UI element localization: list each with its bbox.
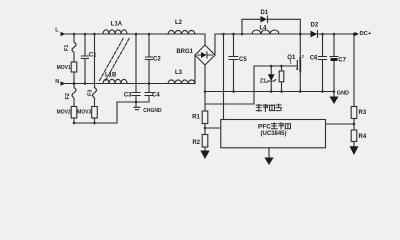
node Z1 top junction — [270, 65, 273, 68]
node N-MOV1 junction — [73, 82, 76, 85]
svg-text:D2: D2 — [311, 23, 319, 29]
wire R3R4 to box — [326, 119, 355, 131]
ground GND — [330, 91, 350, 104]
wire gate drive vertical — [253, 66, 255, 104]
capacitor C1 — [82, 34, 98, 84]
diode D1 bypass loop — [242, 10, 300, 34]
capacitor C5 — [229, 34, 247, 92]
node L-C3 junction — [135, 33, 138, 36]
node bridge minus junction — [204, 90, 207, 93]
wire L rail — [63, 33, 205, 35]
svg-text:C3: C3 — [124, 93, 132, 99]
node Q1 source junction — [299, 90, 302, 93]
svg-text:R2: R2 — [192, 140, 200, 146]
PFC controller box U1 — [221, 120, 326, 148]
wire gate drive — [254, 65, 297, 67]
varistor MOV3 — [77, 107, 97, 124]
wire chassis ground rail — [117, 101, 149, 103]
resistor R3 — [351, 107, 367, 119]
svg-text:R1: R1 — [192, 114, 200, 120]
inductor L1A — [103, 21, 127, 34]
ground arrow below R4 — [350, 142, 359, 156]
capacitor C2 — [146, 34, 162, 84]
wire bridge bottom lead — [204, 65, 206, 111]
terminal L — [55, 28, 66, 37]
svg-text:(UC3845): (UC3845) — [260, 131, 286, 137]
zener Z1 — [260, 66, 276, 92]
node MOV2 bottom junction — [73, 122, 76, 125]
node N-C1 junction — [84, 82, 87, 85]
inductor L3 — [168, 70, 195, 84]
node N-C2 junction — [148, 82, 151, 85]
svg-text:C2: C2 — [153, 56, 161, 62]
svg-text:L4: L4 — [260, 25, 268, 31]
terminal N — [55, 79, 66, 86]
svg-text:R3: R3 — [359, 110, 367, 116]
wire N rail — [63, 83, 195, 85]
node R1 R2 junction — [204, 127, 207, 130]
resistor R4 — [351, 130, 367, 142]
svg-text:PFC: PFC — [258, 124, 271, 131]
wire R1 feed horizontal — [205, 103, 254, 105]
svg-text:C1: C1 — [89, 53, 97, 59]
node C6 bottom junction — [321, 90, 324, 93]
node Rgate bottom junction — [280, 90, 283, 93]
svg-text:N: N — [55, 79, 59, 85]
wire DC bus — [215, 33, 354, 35]
wire MOV bottom rail — [74, 102, 117, 123]
svg-text:MOV3: MOV3 — [77, 110, 91, 116]
choke core lines — [100, 37, 131, 81]
svg-text:C7: C7 — [338, 57, 346, 63]
svg-text:F1: F1 — [64, 45, 70, 51]
fuse F3 — [88, 34, 97, 107]
node D1 left junction — [241, 33, 244, 36]
varistor MOV1 — [57, 62, 77, 84]
node DC+ branch junction — [353, 33, 356, 36]
svg-text:L1A: L1A — [111, 21, 123, 27]
capacitor C7 electrolytic — [330, 34, 347, 97]
node L-C1 junction — [84, 33, 87, 36]
wire bridge top lead — [204, 34, 206, 45]
svg-text:MOV1: MOV1 — [57, 65, 71, 71]
svg-text:L2: L2 — [175, 20, 183, 26]
node N-F2 junction — [73, 82, 76, 85]
resistor R1 — [192, 111, 208, 124]
label PFC controller fake hanzi line1 — [258, 123, 291, 131]
wire R1R2 to box — [205, 124, 221, 135]
node C7 bottom junction — [333, 90, 336, 93]
svg-text:C6: C6 — [310, 55, 318, 61]
svg-text:MOV2: MOV2 — [57, 110, 71, 116]
ground arrow below R2 — [200, 147, 209, 159]
node C5 top junction — [232, 33, 235, 36]
svg-text:BRG1: BRG1 — [176, 49, 193, 55]
wire bus to controller vertical — [223, 34, 225, 120]
terminal DC+ — [355, 31, 372, 37]
node Q1 drain junction — [299, 33, 302, 36]
svg-text:F2: F2 — [65, 93, 71, 99]
inductor L4 — [252, 25, 279, 34]
svg-text:CHGND: CHGND — [143, 108, 162, 114]
svg-text:D1: D1 — [261, 10, 269, 16]
svg-text:C4: C4 — [152, 93, 160, 99]
node Rgate top junction — [280, 65, 283, 68]
node C7 top junction — [333, 33, 336, 36]
node L-F1 junction — [73, 33, 76, 36]
fuse F2 — [65, 84, 76, 107]
fuse F1 — [64, 34, 76, 62]
diode D2 — [311, 23, 319, 38]
resistor gate (unlabeled) — [279, 66, 284, 92]
node C6 top junction — [321, 33, 324, 36]
svg-text:GND: GND — [337, 91, 349, 97]
svg-text:F3: F3 — [88, 90, 94, 96]
capacitor C6 — [310, 34, 327, 92]
node D1 right junction — [299, 33, 302, 36]
node Z1 bottom junction — [270, 90, 273, 93]
node L-C2 junction — [148, 33, 151, 36]
svg-text:DC+: DC+ — [360, 31, 372, 37]
wire bridge right lead — [214, 34, 216, 55]
ground arrow below box — [264, 148, 273, 165]
node C3 chassis junction — [135, 101, 138, 104]
transistor Q1 MOSFET — [287, 34, 305, 92]
svg-text:R4: R4 — [359, 134, 367, 140]
svg-text:C5: C5 — [239, 57, 247, 63]
capacitor C3 — [124, 34, 140, 102]
node MOV3 bottom junction — [93, 122, 96, 125]
wire ground bus — [205, 91, 334, 93]
inductor L1B — [103, 73, 127, 84]
node C5 bottom junction — [232, 90, 235, 93]
wire R3 feed — [353, 34, 355, 107]
bridge rectifier BRG1 — [176, 45, 215, 65]
inductor L2 — [168, 20, 195, 34]
varistor MOV2 — [57, 107, 77, 124]
svg-text:Z1: Z1 — [260, 78, 266, 84]
node L-F3 junction — [93, 33, 96, 36]
label control signal fake hanzi — [256, 104, 281, 111]
wire bridge left lead — [194, 55, 196, 84]
svg-text:L3: L3 — [175, 70, 183, 76]
node R3 R4 junction — [353, 123, 356, 126]
capacitor C4 — [145, 84, 160, 103]
node bus-controller junction — [222, 33, 225, 36]
resistor R2 — [192, 135, 207, 148]
chassis ground CHGND — [134, 102, 162, 114]
